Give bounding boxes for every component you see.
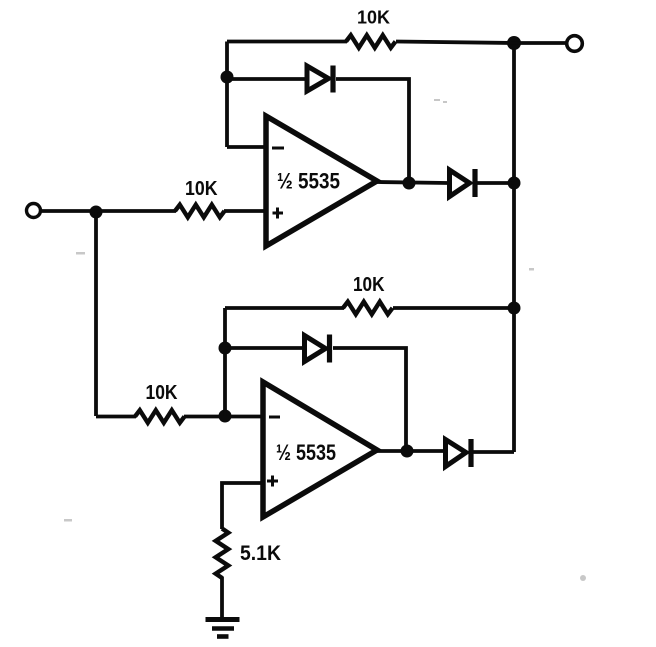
svg-text:½ 5535: ½ 5535: [276, 440, 336, 465]
svg-text:10K: 10K: [353, 274, 385, 296]
resistor R2: [346, 35, 396, 48]
node input junction: [90, 206, 103, 219]
wire U1B output to D4 anode: [377, 449, 443, 453]
wire junction to D1 anode: [227, 77, 307, 81]
svg-text:10K: 10K: [357, 8, 390, 28]
wire R3 to U1B minus input: [184, 415, 263, 419]
node U1B output junction: [401, 445, 414, 458]
diode D3: [450, 169, 476, 197]
wire R2 to top junction: [396, 42, 514, 44]
wire top feedback left segment: [227, 40, 347, 44]
wire top feedback left vertical: [225, 42, 229, 148]
node right bus top junction: [507, 36, 521, 50]
resistor R3: [135, 410, 185, 423]
node right bus middle junction: [508, 302, 521, 315]
diode D4: [446, 439, 472, 467]
op-amp U1B inverting input mark: [269, 416, 280, 419]
op-amp U1A non-inverting input mark: [273, 208, 284, 219]
wire junction to R1: [96, 209, 176, 213]
wire D3 cathode to right bus: [476, 181, 514, 185]
wire D1 cathode to U1A output: [336, 79, 409, 183]
input terminal J1: [27, 204, 41, 218]
ground: [206, 620, 240, 637]
resistor R5: [216, 529, 229, 578]
wire R5 to ground: [220, 577, 224, 620]
wire input to junction: [41, 209, 96, 213]
wire U1A output to D3 anode: [377, 182, 448, 183]
wire junction to D2 anode: [225, 346, 304, 350]
svg-text:½ 5535: ½ 5535: [277, 169, 340, 194]
diode D1: [307, 66, 333, 93]
op-amp U1A inverting input mark: [272, 147, 284, 150]
diode D2: [305, 335, 330, 363]
op-amp U1B: [263, 382, 377, 517]
op-amp U1B non-inverting input mark: [267, 476, 278, 487]
wire R1 to U1A plus input: [224, 209, 266, 213]
node D2 feedback junction: [219, 342, 232, 355]
node right bus upper junction: [508, 177, 521, 190]
output terminal J2: [567, 36, 583, 52]
wire left bus to R3: [96, 415, 136, 419]
wire U1B plus input: [222, 483, 263, 529]
wire right vertical bus: [512, 42, 516, 452]
node U1B inverting input junction: [219, 410, 232, 423]
wire D2 cathode to U1B output: [333, 348, 406, 451]
op-amp U1A: [266, 116, 377, 246]
node D1 feedback junction: [221, 71, 234, 84]
svg-text:5.1K: 5.1K: [240, 542, 281, 565]
node U1A output junction: [403, 177, 416, 190]
wire left vertical bus: [94, 212, 98, 416]
wire junction to U1A minus input: [227, 145, 266, 149]
wire vertical to feedback branches: [223, 308, 227, 416]
wire top junction to output terminal: [514, 41, 568, 45]
svg-text:10K: 10K: [185, 178, 218, 200]
resistor R1: [175, 205, 225, 218]
wire R4 to right bus: [393, 306, 514, 310]
svg-text:10K: 10K: [146, 382, 178, 404]
wire corner to R4: [225, 306, 344, 310]
wire D4 cathode to right bus: [472, 450, 514, 454]
resistor R4: [343, 302, 393, 315]
